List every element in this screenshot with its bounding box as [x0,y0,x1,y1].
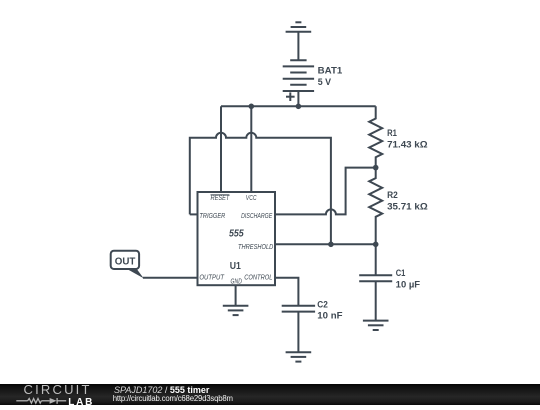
svg-text:GND: GND [231,279,242,286]
ground (IC GND pin) [223,306,249,315]
wire threshold [275,243,376,245]
schematic url [113,395,233,403]
capacitor C2 [282,299,343,352]
wire ground to battery top [297,32,299,61]
svg-text:C1: C1 [396,268,406,278]
wire trigger-threshold link (with hops over pin drops) [190,133,331,245]
wire trigger stub [190,213,198,215]
svg-text:5 V: 5 V [318,77,331,87]
capacitor C1 [359,244,420,320]
svg-text:71.43 kΩ: 71.43 kΩ [387,139,428,149]
wire battery bottom to VCC rail [297,91,299,106]
svg-text:BAT1: BAT1 [318,65,343,75]
label BAT1 5 V [318,65,343,87]
battery BAT1 [283,60,314,91]
svg-text:10 µF: 10 µF [396,280,421,290]
node threshold / trigger link [328,242,334,248]
wire output [143,277,198,279]
svg-text:TRIGGER: TRIGGER [199,213,225,220]
wire RESET pin drop [220,106,222,192]
svg-text:555: 555 [229,228,244,239]
svg-text:10 nF: 10 nF [317,310,343,320]
CircuitLab logo text [24,383,92,396]
footer black bar [0,384,540,405]
svg-text:VCC: VCC [246,195,257,202]
wire control link [275,278,298,306]
svg-text:35.71 kΩ: 35.71 kΩ [387,202,428,212]
node VCC rail / VCC pin [249,104,255,110]
svg-text:U1: U1 [230,260,241,272]
svg-text:CONTROL: CONTROL [244,275,272,282]
svg-text:R2: R2 [387,190,398,200]
pin label RESET (with overline) [211,195,230,202]
ground (top, flipped, battery negative) [286,22,312,31]
IC U1 555 body [198,192,276,285]
resistor R1 [369,106,427,167]
svg-text:RESET: RESET [211,195,230,202]
node VCC rail / battery [296,104,302,110]
battery plus sign [286,92,295,101]
ground (C1 bottom) [363,321,389,330]
svg-text:THRESHOLD: THRESHOLD [238,244,273,251]
svg-text:C2: C2 [317,299,328,309]
schematic title [114,386,209,395]
wire GND pin [235,285,237,306]
net flag OUT [111,251,144,279]
wire VCC rail [221,105,376,107]
ground (C2 bottom) [286,352,312,361]
wire VCC pin drop [250,106,252,192]
svg-text:OUT: OUT [115,256,136,267]
CircuitLab logo squiggle (resistor + diode) [16,395,68,406]
resistor R2 [369,168,428,245]
node R1/R2/discharge junction [373,165,379,171]
wire discharge link (hop over trigger link vertical) [275,168,376,215]
svg-text:DISCHARGE: DISCHARGE [241,213,272,220]
svg-text:R1: R1 [387,128,397,138]
node threshold / R2 / C1 [373,242,379,248]
svg-text:OUTPUT: OUTPUT [199,275,224,282]
